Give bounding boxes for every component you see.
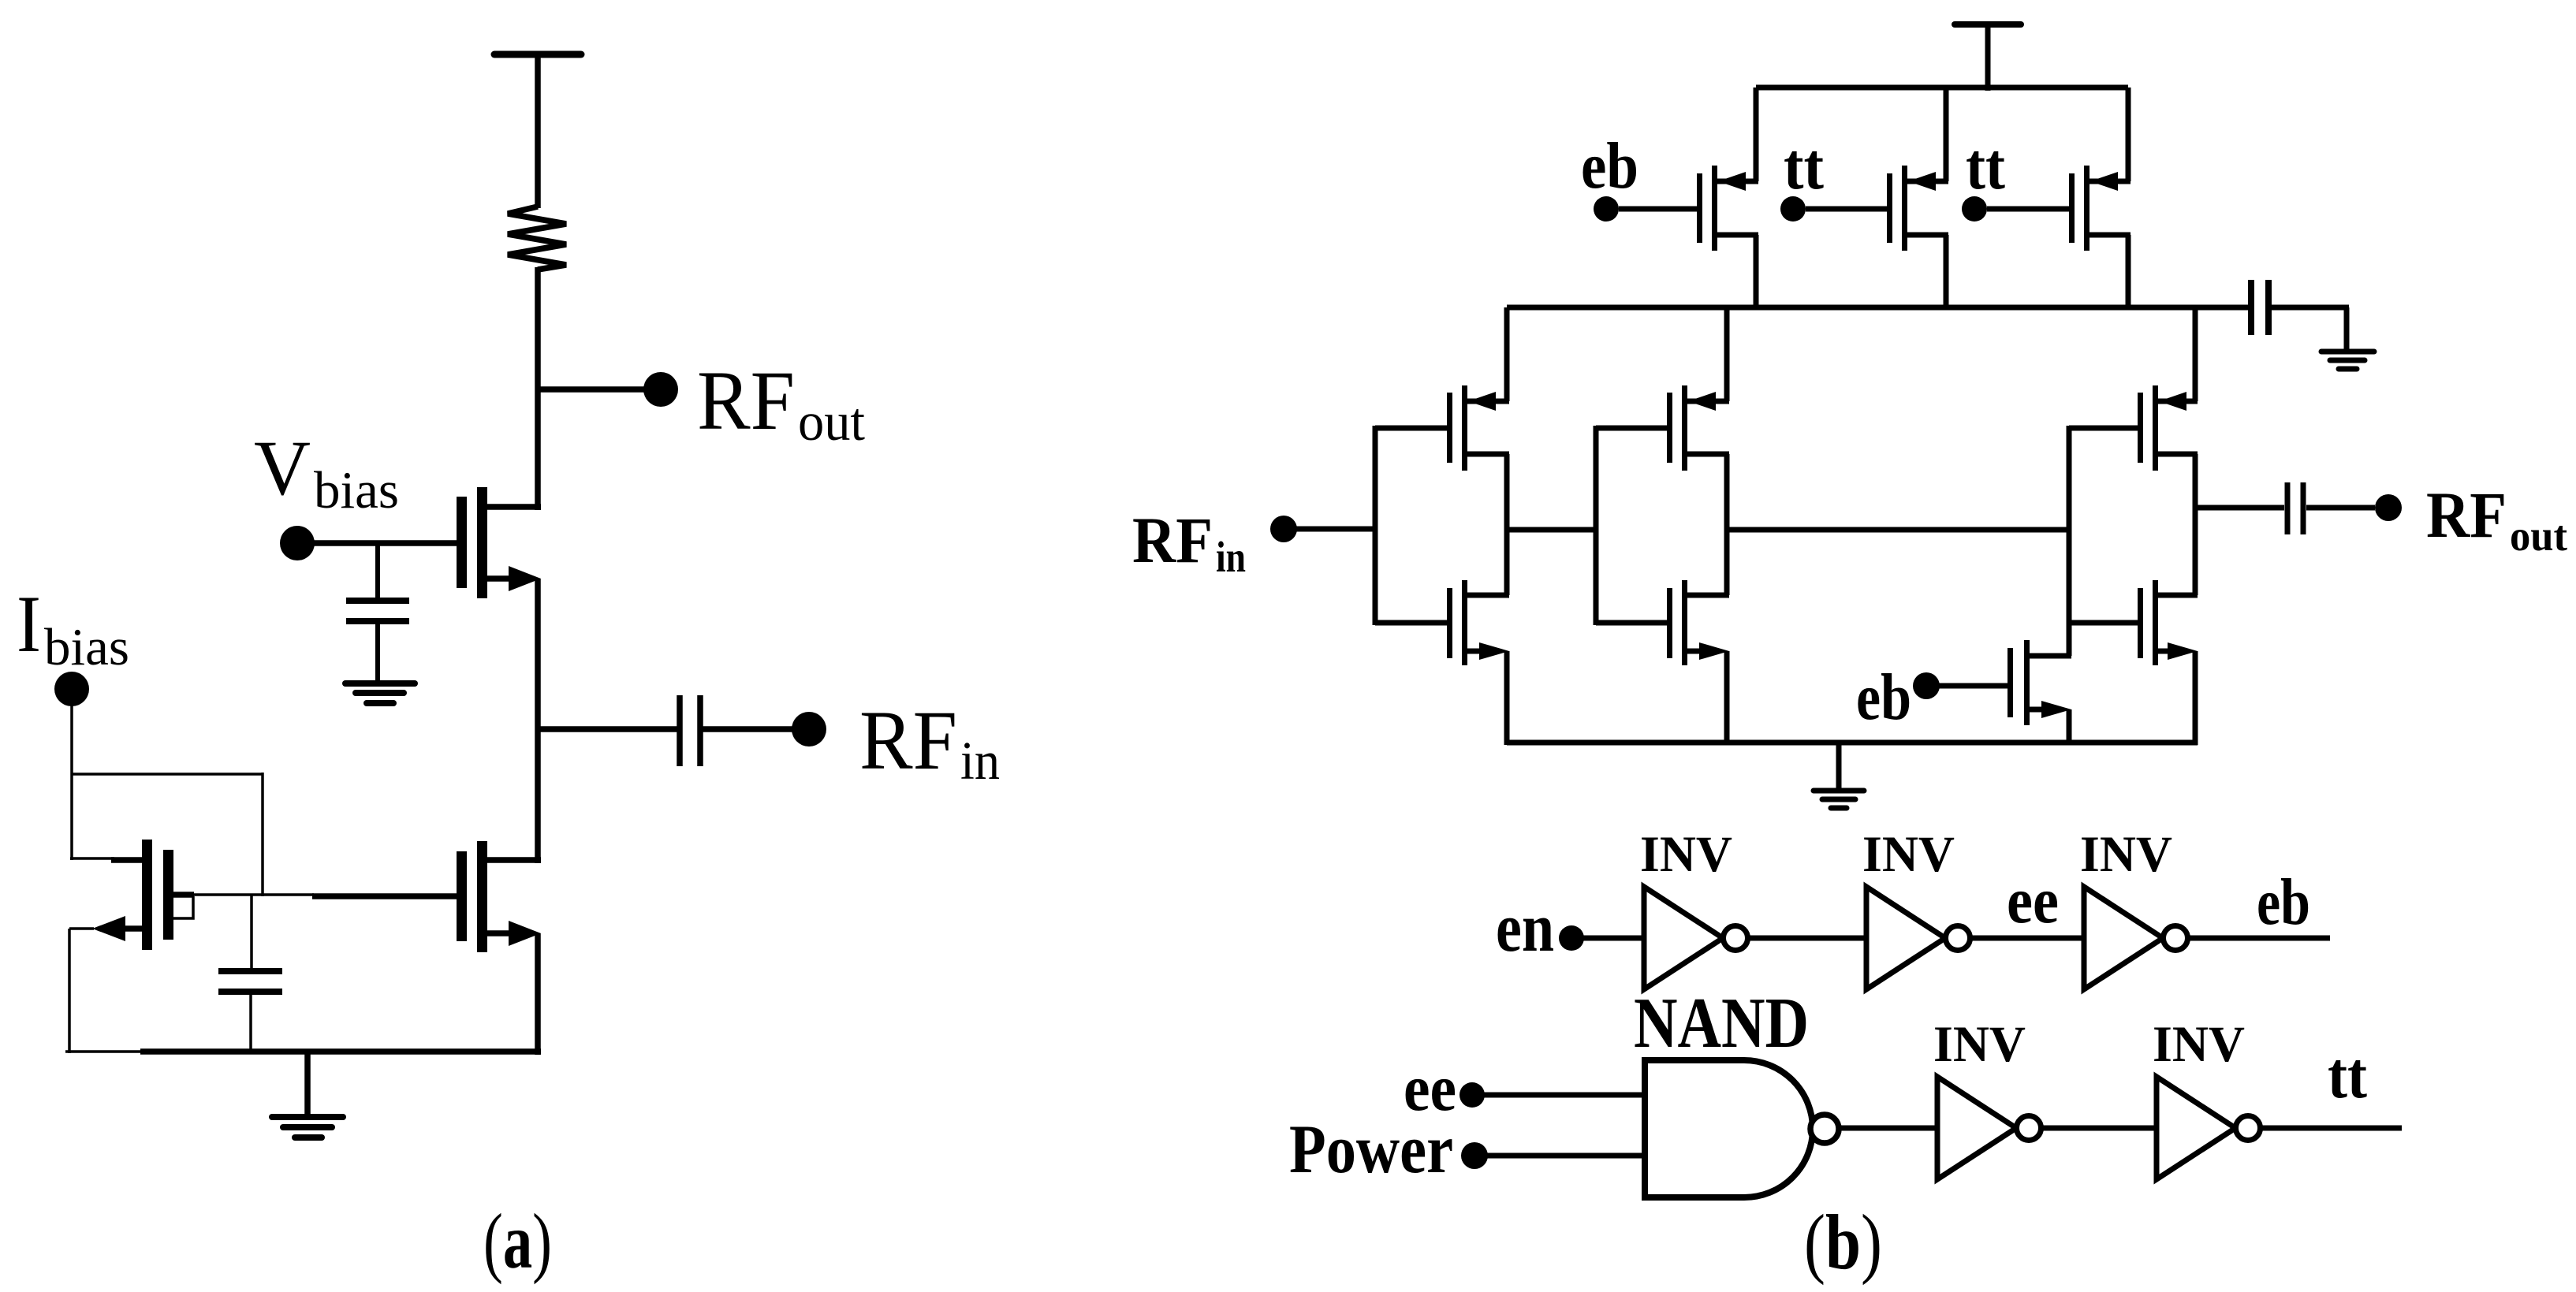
transistor M3sB source arrow bbox=[2168, 642, 2198, 660]
wire M3s gate lead A bbox=[2069, 426, 2138, 431]
wire NAND to INV4 bbox=[1840, 1126, 1937, 1131]
transistor T2 drain arrow bbox=[1908, 172, 1936, 191]
transistor M2sB source arrow bbox=[1699, 642, 1729, 660]
transistor M1B source arrow bbox=[1479, 642, 1509, 660]
svg-text:RF: RF bbox=[859, 694, 957, 787]
transistor S1 drain stub bbox=[2030, 653, 2071, 659]
transistor T1 drain stub bbox=[1717, 179, 1758, 184]
svg-text:out: out bbox=[798, 392, 865, 452]
wire cap to RFout dot bbox=[2306, 505, 2375, 511]
wire bottom rail thin part bbox=[65, 1050, 146, 1053]
transistor T1 gate bar bbox=[1697, 173, 1702, 243]
wire M1A drain up to node rail bbox=[1504, 307, 1510, 401]
svg-text:tt: tt bbox=[1784, 130, 1824, 203]
wire switch bottom rail bbox=[1507, 740, 2198, 746]
transistor M4 source stub bbox=[487, 930, 513, 936]
node eb dot (shunt) bbox=[1913, 672, 1940, 699]
transistor M1A gate bar bbox=[1447, 393, 1452, 463]
wire M3 source left bbox=[69, 927, 94, 930]
wire VDD top rail bbox=[1756, 85, 2128, 91]
wire M4 gate lead bbox=[312, 893, 457, 899]
node ee dot bbox=[1459, 1082, 1485, 1108]
wire Ibias branch right bbox=[72, 773, 263, 776]
transistor M2sA channel bar bbox=[1682, 385, 1687, 471]
wire RFout tap bbox=[538, 386, 645, 393]
svg-text:INV: INV bbox=[2080, 826, 2172, 883]
nand gate body bbox=[1645, 1060, 1813, 1197]
svg-text:RF: RF bbox=[2426, 478, 2507, 551]
wire Ibias down bbox=[70, 689, 73, 860]
svg-text:in: in bbox=[1216, 533, 1246, 581]
svg-text:RF: RF bbox=[697, 355, 795, 448]
transistor M4 drain stub bbox=[487, 857, 541, 863]
ground main (panel a) bbox=[272, 1114, 343, 1120]
wire S1 source down to bottom rail bbox=[2067, 709, 2072, 745]
svg-text:INV: INV bbox=[2153, 1016, 2245, 1073]
wire M3sA source to M3sB drain bbox=[2193, 454, 2198, 595]
transistor M2 source arrow bbox=[509, 566, 541, 591]
ground (panel b switch) bbox=[1814, 788, 1864, 794]
wire eb to S1 gate bbox=[1939, 683, 2007, 689]
transistor M3sA source stub bbox=[2158, 452, 2198, 457]
wire cap to ground corner bbox=[2272, 305, 2349, 311]
transistor M2sA source stub bbox=[1687, 452, 1729, 457]
wire C1 to ground bbox=[375, 624, 380, 685]
ground top-right (panel b) bbox=[2321, 349, 2374, 355]
inverter INV1 triangle bbox=[1644, 887, 1723, 989]
transistor M4 channel bar bbox=[477, 841, 487, 952]
wire M2sB source down to bottom rail bbox=[1724, 651, 1730, 745]
node RFin dot bbox=[792, 712, 826, 747]
wire corner down to ground bbox=[2344, 307, 2350, 353]
power supply VDD rail (panel a) bbox=[494, 51, 581, 58]
transistor M1A drain arrow bbox=[1468, 392, 1496, 411]
node Power dot bbox=[1461, 1142, 1488, 1169]
inverter INV4 triangle bbox=[1937, 1077, 2016, 1179]
wire T1 drain up to VDD rail bbox=[1754, 87, 1759, 181]
wire ee to NAND bbox=[1484, 1093, 1648, 1098]
wire M3sA drain up to node rail bbox=[2193, 307, 2198, 401]
capacitor C1 bbox=[346, 598, 409, 604]
inverter INV3 triangle bbox=[2084, 887, 2163, 989]
transistor M2sA drain arrow bbox=[1688, 392, 1716, 411]
svg-text:INV: INV bbox=[1640, 826, 1732, 883]
transistor T1 source stub bbox=[1717, 233, 1758, 238]
transistor M3sB source stub bbox=[2158, 649, 2170, 654]
svg-text:Power: Power bbox=[1289, 1111, 1453, 1188]
wire RFin tap bbox=[538, 726, 680, 732]
transistor M4 gate bar bbox=[457, 851, 467, 941]
transistor M3 drain stub bbox=[111, 857, 142, 863]
svg-text:tt: tt bbox=[1966, 130, 2005, 203]
transistor M3 source arrow bbox=[92, 916, 125, 941]
wire INV4 to INV5 bbox=[2041, 1126, 2157, 1131]
transistor T3 source stub bbox=[2090, 233, 2131, 238]
node tt dot (first) bbox=[1780, 196, 1806, 222]
svg-text:V: V bbox=[254, 424, 311, 512]
wire Vbias to M2 gate bbox=[297, 540, 457, 546]
node Vbias dot bbox=[280, 526, 315, 560]
transistor M2 drain stub bbox=[487, 504, 541, 510]
capacitor Ca (input coupling) bbox=[677, 695, 683, 766]
node RFin dot (panel b) bbox=[1270, 516, 1297, 542]
transistor M2sB gate bar bbox=[1667, 588, 1672, 658]
svg-text:eb: eb bbox=[1581, 129, 1638, 203]
transistor T3 channel bar bbox=[2084, 166, 2090, 251]
wire M1 gate lead B bbox=[1375, 620, 1447, 626]
capacitor C2 bbox=[218, 968, 282, 974]
transistor M3sB channel bar bbox=[2153, 580, 2158, 665]
wire M3 gate to M4 gate (thin) bbox=[193, 893, 314, 896]
nand gate bubble bbox=[1810, 1115, 1839, 1143]
svg-text:eb: eb bbox=[2257, 866, 2310, 939]
transistor M2sB channel bar bbox=[1682, 580, 1687, 665]
inverter INV2 triangle bbox=[1866, 887, 1945, 989]
svg-text:bias: bias bbox=[44, 618, 129, 676]
transistor M2 source stub bbox=[487, 575, 513, 582]
transistor T2 source stub bbox=[1907, 233, 1948, 238]
ground (panel b switch) stem bbox=[1836, 743, 1842, 792]
wire M2s gate lead B bbox=[1596, 620, 1667, 626]
wire cell1 to cell2 ring bbox=[1509, 527, 1598, 533]
transistor M1B drain stub bbox=[1467, 593, 1509, 598]
wire tt to T2 gate bbox=[1806, 207, 1887, 212]
wire S1 drain up to cell3 gate line bbox=[2067, 623, 2072, 656]
transistor M3sA gate bar bbox=[2138, 393, 2143, 463]
transistor M1A drain stub bbox=[1467, 399, 1509, 404]
transistor M3 gate loop bbox=[173, 896, 193, 918]
wire INV2 to INV3 bbox=[1970, 936, 2084, 941]
svg-text:I: I bbox=[17, 579, 41, 669]
svg-text:ee: ee bbox=[2007, 864, 2059, 937]
wire T3 source down to node rail bbox=[2126, 235, 2131, 310]
wire T2 drain up to VDD rail bbox=[1944, 87, 1949, 181]
transistor M1A channel bar bbox=[1462, 385, 1467, 471]
node en dot bbox=[1559, 925, 1584, 951]
transistor M2 gate bar bbox=[457, 497, 467, 588]
svg-text:tt: tt bbox=[2328, 1039, 2367, 1112]
transistor M3 gate stub bbox=[173, 892, 194, 898]
svg-text:en: en bbox=[1496, 890, 1554, 966]
wire M3s gate lead B bbox=[2069, 620, 2138, 626]
node RFout dot (panel b) bbox=[2375, 494, 2402, 521]
wire INV1 to INV2 bbox=[1748, 936, 1866, 941]
ground main (panel a) stem bbox=[304, 1052, 311, 1119]
wire M1A source to M1B drain bbox=[1504, 454, 1510, 595]
transistor T2 gate bar bbox=[1887, 173, 1892, 243]
svg-text:in: in bbox=[960, 731, 1000, 791]
transistor M2sB drain stub bbox=[1687, 593, 1729, 598]
inverter INV1 bubble bbox=[1724, 926, 1748, 951]
transistor M2sA gate bar bbox=[1667, 393, 1672, 463]
transistor M3 gate bar bbox=[163, 850, 173, 940]
transistor M3sB gate bar bbox=[2138, 588, 2143, 658]
transistor M3sA channel bar bbox=[2153, 385, 2158, 471]
svg-text:NAND: NAND bbox=[1634, 983, 1809, 1063]
wire Vbias junction down to C1 bbox=[375, 543, 380, 602]
transistor M1B source stub bbox=[1467, 649, 1482, 654]
wire cap to RFin dot bbox=[703, 726, 793, 732]
wire M3sB source down to bottom rail bbox=[2193, 651, 2198, 745]
wire RFin to cell1 ring bbox=[1296, 527, 1377, 532]
svg-text:INV: INV bbox=[1862, 826, 1955, 883]
wire resistor bottom to M2 drain bbox=[535, 267, 541, 510]
svg-text:(b): (b) bbox=[1804, 1198, 1882, 1286]
svg-text:(a): (a) bbox=[483, 1197, 552, 1285]
transistor T2 channel bar bbox=[1902, 166, 1907, 251]
transistor M2sB source stub bbox=[1687, 649, 1702, 654]
wire Power to NAND bbox=[1487, 1153, 1648, 1159]
node RFout dot bbox=[643, 372, 678, 407]
svg-text:eb: eb bbox=[1856, 661, 1911, 734]
transistor T3 gate bar bbox=[2069, 173, 2075, 243]
wire gate line down to C2 bbox=[250, 895, 253, 970]
transistor T1 channel bar bbox=[1712, 166, 1717, 251]
svg-text:INV: INV bbox=[1933, 1016, 2026, 1073]
wire cell2 to cell3 ring bbox=[1729, 527, 2071, 533]
wire switch top node rail bbox=[1507, 305, 2248, 311]
wire eb to T1 gate bbox=[1619, 207, 1697, 212]
wire bottom ground rail bbox=[140, 1048, 541, 1055]
node tt dot (second) bbox=[1962, 196, 1987, 222]
capacitor Cc (output coupling) bbox=[2285, 482, 2291, 534]
transistor M4 source arrow bbox=[509, 921, 541, 946]
wire M2 source down to M4 drain bbox=[535, 579, 541, 863]
wire M2s gate ring bbox=[1594, 426, 1599, 625]
wire branch down to mirror gate bbox=[261, 773, 264, 896]
transistor M1A source stub bbox=[1467, 452, 1509, 457]
transistor T1 drain arrow bbox=[1718, 172, 1746, 191]
transistor M3sA drain arrow bbox=[2159, 392, 2186, 411]
wire en to INV1 bbox=[1583, 936, 1644, 941]
transistor M2 channel bar bbox=[477, 487, 487, 598]
wire M2s gate lead A bbox=[1596, 426, 1667, 431]
wire M2sA source to M2sB drain bbox=[1724, 454, 1730, 595]
transistor S1 source arrow bbox=[2041, 701, 2071, 718]
inverter INV4 bubble bbox=[2017, 1116, 2041, 1141]
transistor M3 channel bar bbox=[142, 840, 152, 950]
inverter INV3 bubble bbox=[2164, 926, 2188, 951]
power supply VDD rail (panel b) bbox=[1955, 21, 2021, 28]
wire M2sA drain up to node rail bbox=[1724, 307, 1730, 401]
node Ibias dot bbox=[54, 672, 89, 706]
transistor M2sA drain stub bbox=[1687, 399, 1729, 404]
wire T3 drain up to VDD rail bbox=[2126, 87, 2131, 181]
wire M3s gate ring bbox=[2067, 426, 2072, 625]
wire M4 source down to rail bbox=[535, 933, 541, 1055]
transistor M3sA drain stub bbox=[2158, 399, 2198, 404]
transistor M1B channel bar bbox=[1462, 580, 1467, 665]
svg-text:bias: bias bbox=[314, 461, 399, 519]
transistor T3 drain arrow bbox=[2090, 172, 2118, 191]
transistor M3sB drain stub bbox=[2158, 593, 2198, 598]
wire C2 to rail bbox=[249, 993, 252, 1053]
transistor M3 source stub bbox=[125, 925, 144, 932]
inverter INV5 triangle bbox=[2157, 1077, 2235, 1179]
transistor S1 gate bar bbox=[2007, 648, 2013, 717]
wire Ibias corner to M3 drain bbox=[70, 857, 114, 860]
wire T2 source down to node rail bbox=[1944, 235, 1949, 310]
wire M1B source down to bottom rail bbox=[1504, 651, 1510, 745]
wire M1 gate ring bbox=[1373, 426, 1378, 625]
wire RFout tap (panel b) bbox=[2198, 505, 2284, 511]
wire tt to T3 gate bbox=[1987, 207, 2069, 212]
wire T1 source down to node rail bbox=[1754, 235, 1759, 310]
wire M1 gate lead A bbox=[1375, 426, 1447, 431]
transistor T3 drain stub bbox=[2090, 179, 2131, 184]
wire M3 source down to rail bbox=[68, 929, 71, 1053]
transistor S1 source stub bbox=[2030, 707, 2044, 713]
ground below C1 bbox=[345, 680, 415, 687]
capacitor Cb (rail bypass) bbox=[2248, 280, 2254, 335]
node eb dot (top) bbox=[1594, 196, 1619, 222]
transistor S1 channel bar bbox=[2024, 640, 2030, 725]
svg-text:out: out bbox=[2510, 512, 2568, 560]
inverter INV5 bubble bbox=[2236, 1116, 2261, 1141]
inverter INV2 bubble bbox=[1946, 926, 1970, 951]
transistor T2 drain stub bbox=[1907, 179, 1948, 184]
transistor M1B gate bar bbox=[1447, 588, 1452, 658]
svg-text:RF: RF bbox=[1132, 504, 1213, 576]
wire INV3 output eb bbox=[2188, 936, 2330, 941]
resistor RD bbox=[508, 207, 566, 270]
wire INV5 output tt bbox=[2261, 1126, 2402, 1131]
